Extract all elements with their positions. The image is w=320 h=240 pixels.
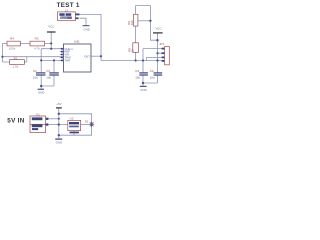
svg-text:R2: R2 xyxy=(35,37,39,41)
svg-text:10u: 10u xyxy=(46,76,51,80)
svg-text:THR: THR xyxy=(65,59,71,63)
svg-text:JP1: JP1 xyxy=(159,42,165,46)
svg-text:10u: 10u xyxy=(150,76,155,80)
svg-text:R4: R4 xyxy=(10,37,14,41)
svg-text:C3: C3 xyxy=(135,69,139,73)
svg-text:100k: 100k xyxy=(9,47,16,51)
svg-text:X1: X1 xyxy=(36,113,40,117)
svg-text:GND: GND xyxy=(38,90,44,94)
svg-text:1k: 1k xyxy=(131,49,135,53)
svg-text:OUT: OUT xyxy=(84,54,90,58)
svg-text:J1: J1 xyxy=(65,8,69,12)
svg-text:10u: 10u xyxy=(135,76,140,80)
svg-text:C1: C1 xyxy=(33,69,37,73)
svg-text:5V IN: 5V IN xyxy=(7,118,24,125)
svg-text:TEST: TEST xyxy=(61,16,68,20)
svg-text:4.7k: 4.7k xyxy=(34,47,40,51)
svg-text:GND: GND xyxy=(140,88,146,92)
svg-text:10k: 10k xyxy=(130,20,134,25)
svg-text:U$1: U$1 xyxy=(74,40,80,44)
svg-text:VCC: VCC xyxy=(48,24,54,28)
svg-text:TEST 1: TEST 1 xyxy=(57,2,80,9)
svg-text:10u: 10u xyxy=(33,76,38,80)
svg-text:U2: U2 xyxy=(70,117,74,121)
svg-text:1.5k: 1.5k xyxy=(12,65,18,69)
svg-text:GND: GND xyxy=(56,140,62,144)
svg-text:+5V: +5V xyxy=(56,102,61,106)
svg-text:GND: GND xyxy=(84,27,90,31)
svg-text:R1: R1 xyxy=(14,56,18,60)
svg-text:C2: C2 xyxy=(46,69,50,73)
svg-text:VCC: VCC xyxy=(156,27,162,31)
svg-text:C4: C4 xyxy=(150,69,154,73)
svg-text:D1: D1 xyxy=(85,120,89,124)
